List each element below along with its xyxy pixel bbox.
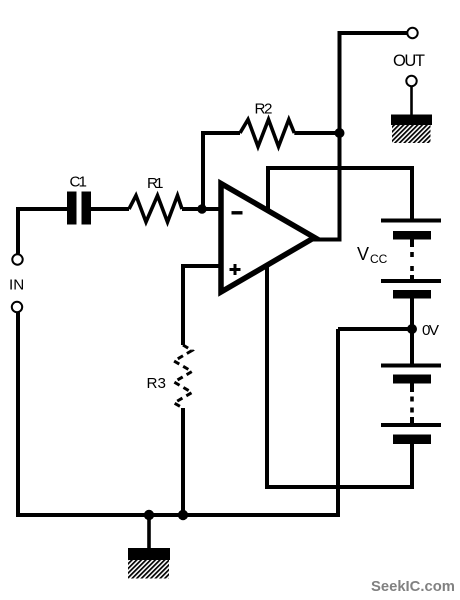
svg-text:V: V — [357, 244, 369, 264]
svg-text:SeekIC.com: SeekIC.com — [371, 579, 455, 595]
svg-text:R1: R1 — [147, 175, 164, 192]
svg-text:0V: 0V — [422, 322, 440, 339]
svg-text:R2: R2 — [255, 101, 273, 118]
svg-text:CC: CC — [370, 252, 388, 266]
svg-text:R3: R3 — [147, 375, 166, 392]
svg-text:C1: C1 — [70, 174, 88, 191]
svg-text:IN: IN — [9, 277, 24, 294]
svg-text:OUT: OUT — [393, 52, 425, 70]
